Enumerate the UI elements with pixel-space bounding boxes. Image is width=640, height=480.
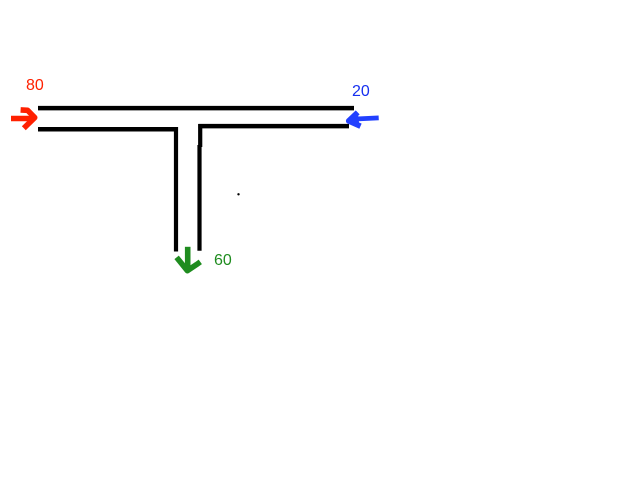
wire: left wall of vertical branch	[174, 127, 178, 252]
wire: right wall of vertical branch (upper)	[198, 124, 202, 147]
label: 80 (red inflow value)	[26, 78, 44, 94]
label: 20 (blue inflow value)	[352, 84, 370, 100]
node: stray dot	[237, 193, 239, 195]
wire: lower-left pipe wall (horizontal)	[38, 127, 178, 132]
flow arrow 20 (blue, pointing left)	[349, 112, 379, 126]
flow arrow 60 (green, pointing down)	[177, 247, 201, 271]
wire: top pipe wall (horizontal)	[38, 106, 354, 111]
wire: lower-right pipe wall (horizontal)	[198, 124, 349, 129]
wire: right wall of vertical branch (lower)	[197, 145, 201, 251]
label: 60 (green outflow value)	[214, 253, 232, 269]
flow arrow 80 (red, pointing right)	[11, 110, 35, 128]
